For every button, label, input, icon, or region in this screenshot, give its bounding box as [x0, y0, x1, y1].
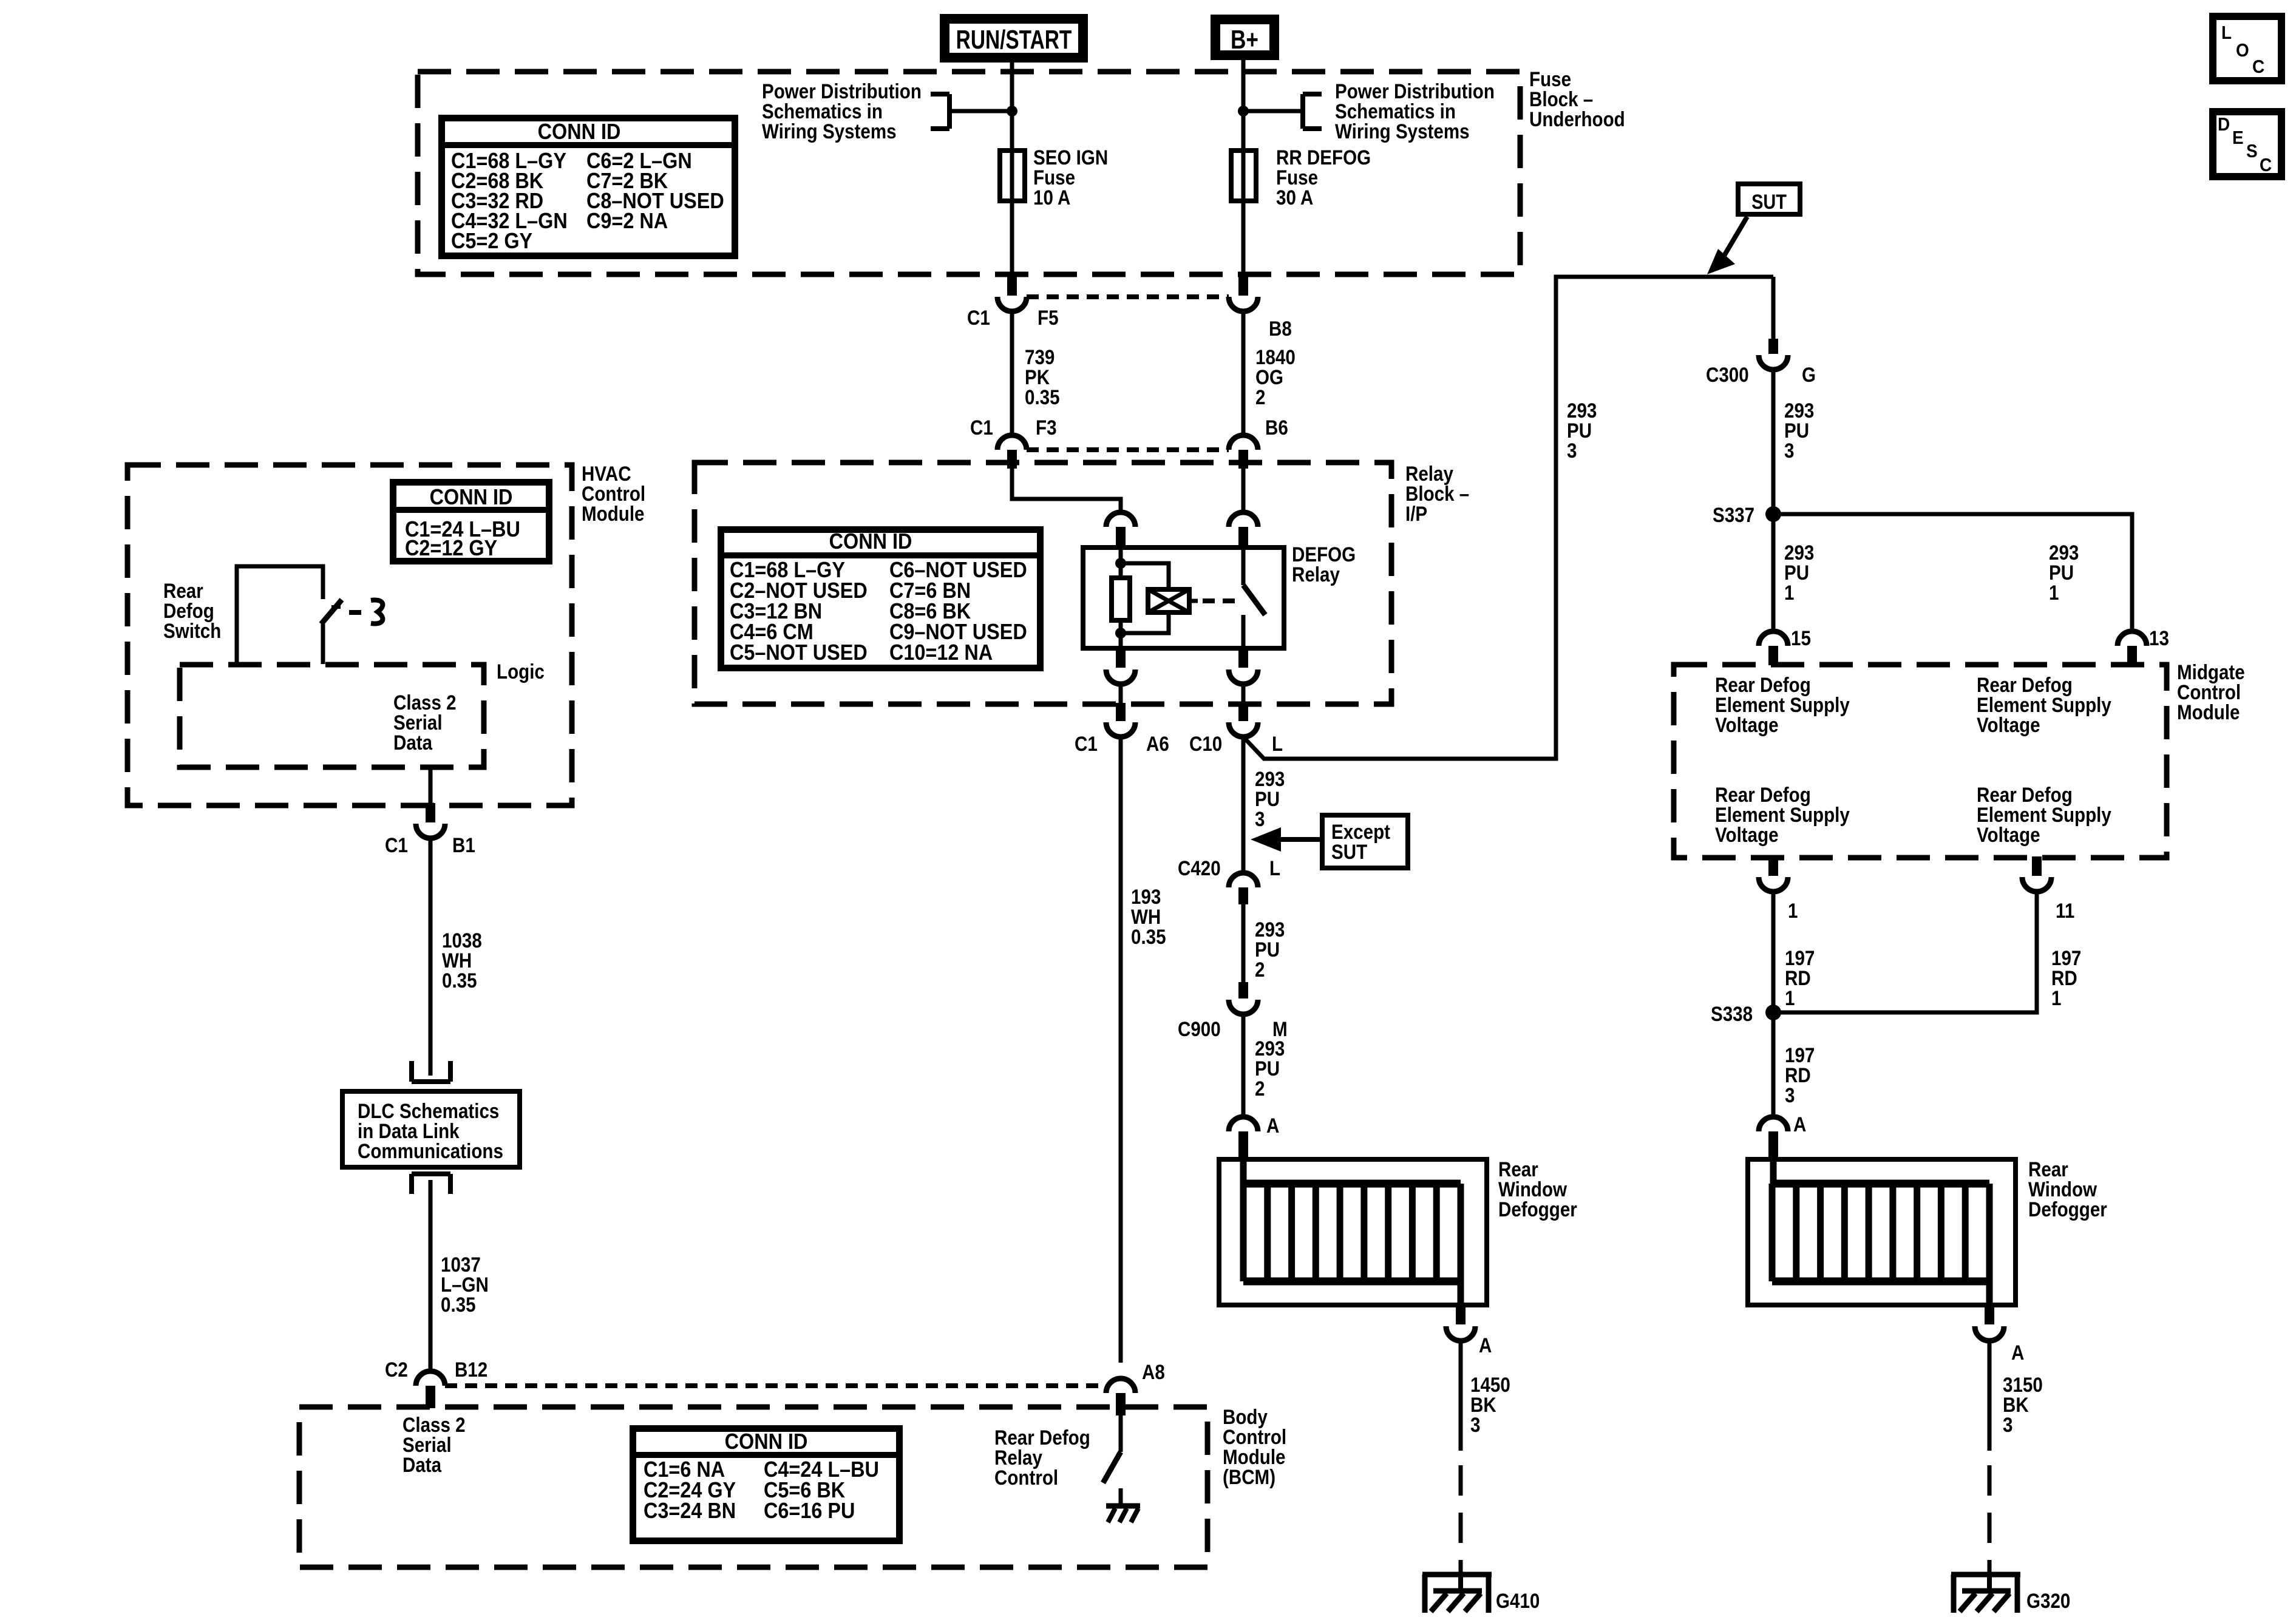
label 1038 WH 0.35 [442, 929, 482, 952]
pin label C2 / B12 [385, 1358, 408, 1381]
connector pin 15 entering midgate module [1759, 631, 1788, 646]
wire 1038 WH 0.35 [429, 838, 433, 1076]
svg-text:L: L [1269, 856, 1280, 880]
svg-text:F3: F3 [1036, 416, 1057, 439]
svg-text:CONN ID: CONN ID [430, 485, 513, 509]
label 197 RD 1 (right) [2051, 946, 2081, 969]
rear defog switch loop [237, 566, 323, 664]
Logic dashed box [180, 665, 484, 767]
wire jog from F3 to relay coil [1012, 469, 1121, 513]
BCM rear defog relay control switch [1119, 1415, 1123, 1452]
left defogger feed wire [1240, 1159, 1247, 1184]
connector pin 1 leaving midgate module [1768, 856, 1778, 876]
svg-text:Data: Data [402, 1453, 441, 1476]
relay resistor [1112, 578, 1130, 620]
junction node on B+ wire [1238, 106, 1249, 117]
connector B6 entering relay block [1229, 435, 1258, 450]
svg-text:L: L [2221, 22, 2232, 44]
svg-text:Logic: Logic [497, 660, 545, 683]
svg-text:S338: S338 [1711, 1002, 1753, 1025]
label 1037 L-GN 0.35 [441, 1253, 481, 1276]
svg-text:A: A [2011, 1341, 2024, 1364]
svg-text:C10: C10 [1189, 732, 1222, 755]
power tag B+ [1215, 19, 1274, 55]
svg-text:Defogger: Defogger [1498, 1198, 1577, 1221]
connector C1 pin A6 leaving relay block [1116, 703, 1126, 721]
svg-text:C3=24 BN: C3=24 BN [644, 1499, 736, 1523]
Fuse Block - Underhood dashed box [418, 72, 1520, 274]
svg-text:C2: C2 [385, 1358, 408, 1381]
svg-text:A6: A6 [1146, 732, 1169, 755]
label Rear Window Defogger (left) [1498, 1158, 1538, 1181]
right defogger return rail [1986, 1281, 1993, 1305]
svg-text:1: 1 [1785, 986, 1795, 1009]
relay junction node bottom [1115, 628, 1126, 639]
svg-text:G410: G410 [1496, 1589, 1540, 1612]
wire S337 branch right [1773, 514, 2132, 631]
svg-text:SUT: SUT [1331, 840, 1368, 863]
pin label A8 [1142, 1360, 1165, 1383]
svg-text:C6=16 PU: C6=16 PU [764, 1499, 855, 1523]
Except SUT arrow [1277, 837, 1322, 842]
label 197 RD 3 [1785, 1043, 1815, 1066]
wire 197 RD 1 left [1771, 892, 1776, 1012]
svg-text:Module: Module [582, 502, 644, 525]
wire 193 WH 0.35 from A6 to BCM [1119, 737, 1123, 1363]
svg-text:S337: S337 [1713, 503, 1754, 526]
LOC legend box [2213, 16, 2281, 81]
label 193 WH 0.35 [1131, 885, 1161, 908]
svg-text:C: C [2252, 56, 2264, 78]
right defogger feed wire [1770, 1159, 1777, 1184]
svg-text:C300: C300 [1706, 363, 1749, 386]
connector pin 13 entering midgate module [2118, 631, 2147, 646]
svg-text:30 A: 30 A [1276, 186, 1313, 209]
connector B8 leaving fuse block [1238, 276, 1248, 296]
svg-text:10 A: 10 A [1033, 186, 1070, 209]
label Body Control Module (BCM) [1223, 1405, 1268, 1428]
junction node on RUN/START wire [1007, 106, 1017, 117]
relay socket connector (switch side) [1229, 512, 1258, 527]
pin label C300 / G [1706, 363, 1749, 386]
svg-text:Communications: Communications [358, 1139, 503, 1162]
wire 293 PU 3 to S337 [1771, 370, 1776, 514]
label Relay Block - I/P [1405, 462, 1453, 485]
svg-text:0.35: 0.35 [1131, 925, 1166, 948]
label Logic [497, 660, 545, 683]
svg-text:0.35: 0.35 [442, 969, 477, 992]
connector link dotted line F3-B6 [1027, 447, 1229, 452]
relay actuator stub and dashed link [1189, 599, 1198, 603]
rear defog switch blade [321, 600, 342, 624]
wire L to C420 [1241, 737, 1246, 873]
label Rear Defog Relay Control [994, 1426, 1090, 1449]
svg-text:3: 3 [1470, 1413, 1480, 1436]
CONN ID table (relay block) [721, 530, 1041, 668]
svg-text:C900: C900 [1178, 1017, 1221, 1040]
svg-text:Wiring Systems: Wiring Systems [762, 120, 897, 143]
label SEO IGN Fuse 10 A [1033, 146, 1108, 169]
svg-text:13: 13 [2149, 626, 2169, 649]
svg-text:A: A [1479, 1334, 1492, 1357]
svg-text:D: D [2218, 114, 2230, 135]
relay coil wire top [1119, 547, 1123, 578]
relay pin exit (switch) to relay block edge [1238, 648, 1248, 668]
svg-text:Defogger: Defogger [2028, 1198, 2107, 1221]
connector C10 pin L leaving relay block [1238, 703, 1248, 721]
svg-text:C5–NOT USED: C5–NOT USED [730, 640, 868, 665]
off-page bracket above DLC box [409, 1061, 414, 1082]
left Rear Window Defogger box [1219, 1159, 1487, 1305]
svg-text:Voltage: Voltage [1715, 713, 1779, 736]
svg-text:Control: Control [994, 1466, 1058, 1489]
svg-text:O: O [2236, 40, 2249, 61]
pin label C10 / L [1189, 732, 1222, 755]
svg-text:Module: Module [2177, 700, 2240, 724]
wire 1840 OG segment [1241, 311, 1246, 434]
relay coil symbol (boxed X) [1148, 589, 1189, 612]
connector pin A entering left defogger [1229, 1117, 1258, 1131]
CONN ID table (fuse block) [442, 118, 735, 256]
pin label B6 [1265, 416, 1288, 439]
svg-text:C1: C1 [970, 416, 993, 439]
svg-text:0.35: 0.35 [441, 1293, 476, 1316]
svg-text:B12: B12 [455, 1358, 487, 1381]
Relay Block - I/P dashed box [695, 463, 1391, 704]
svg-text:3: 3 [1785, 1083, 1795, 1107]
svg-text:Data: Data [393, 731, 432, 754]
relay pin exit (coil) to relay block edge [1116, 648, 1126, 668]
relay DEFOG Relay box [1083, 547, 1284, 648]
wire from L to SUT branch [1242, 277, 1773, 759]
wire 1037 L-GN 0.35 [429, 1180, 433, 1371]
connector pin A leaving left defogger [1456, 1305, 1466, 1324]
label 293 PU 1 (right branch) [2049, 541, 2079, 564]
svg-text:1: 1 [2049, 581, 2059, 604]
DESC legend box [2213, 112, 2281, 177]
wire S337 down [1771, 514, 1776, 631]
ground G320 [1951, 1572, 2020, 1578]
wire 197 RD 1 right [1773, 892, 2037, 1012]
off-page bracket below DLC box [409, 1174, 414, 1194]
DLC Schematics box [342, 1091, 520, 1167]
CONN ID table (HVAC) [393, 483, 549, 561]
connector C1 pin B1 leaving HVAC [426, 803, 435, 822]
wire 293 PU 2 (C420-C900) [1241, 904, 1246, 982]
wire 293 PU 2 (C900-defogger) [1241, 1014, 1246, 1117]
svg-text:C10=12 NA: C10=12 NA [889, 640, 993, 665]
svg-text:C2=12 GY: C2=12 GY [405, 536, 497, 560]
label Rear Defog Switch [163, 579, 203, 602]
right defogger grid element [1772, 1180, 1989, 1188]
label Class 2 Serial Data (HVAC) [393, 691, 457, 714]
wire 1450 BK 3 [1459, 1341, 1463, 1451]
label RR DEFOG Fuse 30 A [1276, 146, 1371, 169]
left defogger return rail [1458, 1281, 1464, 1305]
svg-text:15: 15 [1791, 626, 1811, 649]
wire RUN/START to fuse block [1010, 58, 1014, 277]
svg-text:0.35: 0.35 [1025, 385, 1060, 408]
label Rear Defog Element Supply Voltage (top left) [1715, 673, 1811, 696]
HVAC Control Module dashed box [127, 465, 572, 805]
svg-text:Wiring Systems: Wiring Systems [1335, 120, 1470, 143]
svg-text:2: 2 [1255, 958, 1265, 981]
connector A8 entering BCM [1106, 1378, 1135, 1393]
svg-text:I/P: I/P [1405, 502, 1427, 525]
svg-text:Relay: Relay [1292, 563, 1340, 586]
svg-text:2: 2 [1255, 385, 1265, 408]
label Fuse Block - Underhood [1529, 67, 1571, 90]
pin label C1 / A6 [1075, 732, 1098, 755]
label 197 RD 1 (left) [1785, 946, 1815, 969]
svg-text:C9=2 NA: C9=2 NA [586, 209, 668, 233]
connector C900 pin M inline [1238, 982, 1248, 998]
svg-text:Voltage: Voltage [1715, 823, 1779, 846]
svg-text:A8: A8 [1142, 1360, 1165, 1383]
relay switch contact [1241, 547, 1246, 585]
label 293 PU 3 (except-SUT branch) [1255, 767, 1285, 790]
svg-text:B+: B+ [1231, 25, 1258, 55]
svg-text:Switch: Switch [163, 619, 221, 642]
svg-text:L: L [1272, 732, 1283, 755]
connector link dotted line B12-A8 [445, 1383, 1106, 1388]
SUT arrow [1722, 217, 1747, 260]
label 293 PU 2 (upper) [1255, 918, 1285, 941]
label Rear Defog Element Supply Voltage (top right) [1977, 673, 2073, 696]
SUT flag box [1738, 184, 1800, 214]
label Rear Defog Element Supply Voltage (bottom right) [1977, 783, 2073, 806]
connector C300 pin G inline [1768, 339, 1778, 354]
svg-text:S: S [2246, 141, 2258, 162]
svg-text:CONN ID: CONN ID [725, 1429, 808, 1454]
connector C1 pin F3 entering relay block [997, 435, 1027, 450]
label Power Distribution Schematics in Wiring Systems (left) [762, 80, 922, 103]
wire B6 to relay switch [1241, 469, 1246, 513]
CONN ID table (BCM) [633, 1429, 900, 1541]
svg-text:G: G [1802, 363, 1816, 386]
Except SUT flag box [1322, 815, 1408, 868]
ground G410 [1422, 1572, 1492, 1578]
left defogger grid element [1243, 1180, 1461, 1188]
label 739 PK 0.35 [1025, 345, 1055, 368]
svg-text:3: 3 [1255, 807, 1265, 830]
relay socket connector (coil side) [1106, 512, 1135, 527]
label Rear Defog Element Supply Voltage (bottom left) [1715, 783, 1811, 806]
label 3150 BK 3 [2003, 1373, 2043, 1396]
connector pin A leaving right defogger [1985, 1305, 1994, 1324]
wire B+ to fuse block [1241, 55, 1246, 277]
label Rear Window Defogger (right) [2028, 1158, 2068, 1181]
relay coil parallel loop [1121, 563, 1169, 589]
svg-text:A: A [1793, 1113, 1806, 1136]
svg-text:1: 1 [1784, 581, 1794, 604]
label Class 2 Serial Data (BCM) [402, 1413, 466, 1436]
splice S338 [1765, 1005, 1781, 1020]
svg-text:(BCM): (BCM) [1223, 1465, 1275, 1488]
svg-text:1: 1 [2051, 986, 2061, 1009]
svg-text:Voltage: Voltage [1977, 823, 2040, 846]
connector link dotted line F5-B8 [1027, 294, 1229, 299]
rear defog switch multi-position symbol [371, 600, 382, 623]
svg-text:G320: G320 [2026, 1589, 2070, 1612]
svg-text:RUN/START: RUN/START [956, 25, 1072, 55]
pin label B8 [1269, 317, 1292, 340]
svg-text:C: C [2260, 155, 2272, 176]
svg-text:C1: C1 [1075, 732, 1098, 755]
wire down to C300 [1771, 277, 1776, 339]
svg-text:C5=2 GY: C5=2 GY [451, 229, 532, 253]
connector pin A entering right defogger [1759, 1117, 1788, 1131]
label 1450 BK 3 [1470, 1373, 1510, 1396]
svg-text:11: 11 [2056, 899, 2074, 922]
wire 3150 BK 3 [1988, 1341, 1992, 1451]
label 1840 OG 2 [1255, 345, 1296, 368]
Body Control Module dashed box [299, 1407, 1207, 1567]
connector C2 pin B12 entering BCM [416, 1371, 445, 1386]
wire 197 RD 3 to defogger [1771, 1012, 1776, 1117]
connector C1 pin F5 leaving fuse block [1007, 276, 1017, 296]
label 293 PU 3 (C300 to S337) [1784, 399, 1814, 422]
pin label C1 / F5 [967, 306, 990, 329]
svg-text:3: 3 [2003, 1413, 2012, 1436]
svg-text:1: 1 [1788, 899, 1798, 922]
rear defog switch dashed actuator [349, 610, 361, 615]
svg-text:C1: C1 [385, 833, 408, 856]
label 293 PU 2 (lower) [1255, 1037, 1285, 1060]
svg-text:E: E [2232, 127, 2244, 149]
right Rear Window Defogger box [1748, 1159, 2016, 1305]
svg-text:3: 3 [1567, 439, 1577, 462]
fuse RR DEFOG 30A [1231, 151, 1256, 201]
bracket to RUN/START wire [931, 92, 949, 97]
svg-text:A: A [1266, 1114, 1279, 1137]
svg-text:B6: B6 [1265, 416, 1288, 439]
svg-text:Underhood: Underhood [1529, 107, 1625, 131]
svg-text:B8: B8 [1269, 317, 1292, 340]
svg-text:B1: B1 [452, 833, 475, 856]
wire 739 PK segment [1010, 311, 1014, 434]
wire class 2 serial data out of HVAC [429, 767, 433, 804]
Midgate Control Module dashed box [1674, 665, 2167, 858]
pin label C1 / F3 [970, 416, 993, 439]
fuse SEO IGN 10A [1000, 151, 1025, 201]
svg-text:SUT: SUT [1751, 190, 1787, 214]
label 293 PU 3 (SUT branch) [1567, 399, 1597, 422]
label Midgate Control Module [2177, 660, 2245, 683]
splice S337 [1765, 506, 1781, 522]
svg-text:C420: C420 [1178, 856, 1221, 880]
svg-text:C1: C1 [967, 306, 990, 329]
relay coil wire bottom [1119, 620, 1123, 648]
svg-text:F5: F5 [1038, 306, 1059, 329]
BCM internal ground [1106, 1503, 1140, 1509]
label HVAC Control Module [582, 462, 631, 485]
connector C420 pin L inline [1229, 873, 1258, 887]
relay junction node top [1115, 558, 1126, 569]
svg-text:3: 3 [1784, 439, 1794, 462]
bracket to B+ wire [1303, 92, 1322, 97]
svg-text:CONN ID: CONN ID [829, 529, 912, 554]
svg-text:Voltage: Voltage [1977, 713, 2040, 736]
label 293 PU 1 (left branch) [1784, 541, 1814, 564]
pin label C1 / B1 [385, 833, 408, 856]
power tag RUN/START [945, 19, 1083, 58]
label DEFOG Relay [1292, 543, 1356, 566]
connector pin 11 leaving midgate module [2032, 856, 2042, 876]
svg-text:2: 2 [1255, 1077, 1265, 1100]
svg-text:CONN ID: CONN ID [538, 120, 621, 144]
label Power Distribution Schematics in Wiring Systems (right) [1335, 80, 1495, 103]
